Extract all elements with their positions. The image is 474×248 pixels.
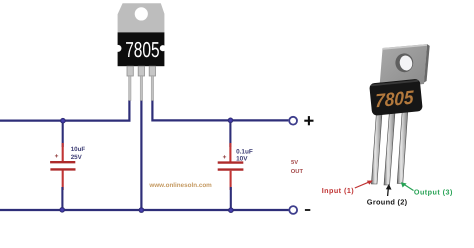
svg-text:Ground (2): Ground (2) [367,197,408,206]
U1 metal tab [118,3,165,32]
photo tab right side face [424,44,430,82]
junction: C1 top node on input rail [60,118,66,124]
arrow: output label to pin 3 [401,182,414,190]
photo pin 3 [397,111,408,184]
svg-text:7805: 7805 [125,37,159,62]
svg-text:10uF: 10uF [71,146,86,153]
U1 pin 2 collar [138,66,144,76]
svg-text:25V: 25V [71,154,83,161]
junction: U1 ground pin node on ground rail [139,207,145,213]
svg-text:7805: 7805 [375,87,414,112]
photo: 7805 real package (right side) [369,44,430,185]
U1 pin 3 collar [149,66,155,76]
photo metal tab [379,44,427,88]
label: 5V OUT output voltage [291,160,304,175]
C2 value label 0.1uF 10V [236,148,253,162]
terminal: - output terminal circle [289,206,297,214]
U1 pin 1 collar [127,66,133,76]
wire: ground wire from U1 pin 2 down to bottom rail [140,100,142,210]
photo pin 2 [384,112,395,185]
label: minus symbol [305,209,310,211]
photo tab top edge face [383,44,428,50]
svg-text:+: + [223,154,227,161]
svg-text:OUT: OUT [291,168,304,175]
U1 body right white dot [160,45,166,51]
svg-text:Input (1): Input (1) [322,186,355,195]
wire: top rail right segment (output rail from U1 pin 3 to + terminal) [152,100,288,120]
U1 pin 1 lead [129,76,131,101]
wire: top rail left segment (input rail from left edge to U1 pin 1) [0,100,129,121]
junction: C2 top node on output rail [228,118,234,124]
photo body [369,79,423,116]
svg-text:Output (3): Output (3) [414,188,453,197]
arrow: input label to pin 1 [355,181,373,189]
U1 pin 3 lead [151,76,153,101]
op regulator U1: 7805 schematic package (TO-220 front view) [115,3,166,100]
junction: C2 bottom node on ground rail [228,207,234,213]
U1 mounting hole [135,7,148,20]
svg-text:www.onlinesoln.com: www.onlinesoln.com [148,182,212,189]
U1 pin 2 lead [140,76,142,101]
capacitor C1 (10uF 25V electrolytic, input side) [50,121,75,210]
photo mounting hole rim [394,53,414,74]
U1 body [118,32,165,66]
photo mounting hole [398,54,413,71]
arrow: ground label to pin 2 [386,184,392,196]
wire: bottom rail (common negative rail) [0,209,289,211]
label: plus symbol [304,116,313,125]
svg-text:0.1uF: 0.1uF [236,148,253,155]
svg-text:+: + [55,153,59,160]
junction: C1 bottom node on ground rail [59,207,65,213]
svg-text:10V: 10V [236,155,248,162]
svg-text:5V: 5V [291,160,298,166]
capacitor C2 (0.1uF 10V, output side) [218,120,244,210]
U1 body left white dot [115,45,122,52]
C1 value label 10uF 25V [71,146,86,161]
terminal: + output terminal circle [289,117,297,125]
photo pin 1 [371,113,382,184]
